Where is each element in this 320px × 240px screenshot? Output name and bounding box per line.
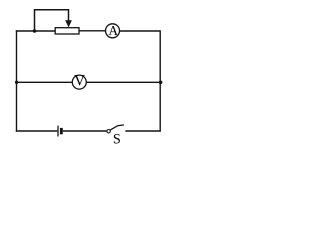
rheostat R (resistor box) xyxy=(55,28,79,34)
node junction dot middle-left xyxy=(15,81,18,84)
wire middle-right segment xyxy=(86,81,160,83)
wire bottom-left segment xyxy=(16,130,58,132)
switch S blade xyxy=(110,125,124,130)
battery cell: short thick plate xyxy=(60,128,63,134)
wire top-left segment xyxy=(16,30,55,32)
node junction dot middle-right xyxy=(159,81,163,85)
switch S pivot circle xyxy=(107,130,110,133)
ammeter A xyxy=(106,24,120,38)
wire top-right segment xyxy=(120,30,161,32)
wiper loop wire (up, across, down) xyxy=(35,10,69,31)
battery cell: long thin plate xyxy=(57,126,59,137)
node junction dot at wiper tap xyxy=(33,29,37,33)
wire battery-to-switch segment xyxy=(63,130,107,132)
wire middle-left segment xyxy=(17,81,73,83)
wire bottom-right segment xyxy=(125,130,161,132)
svg-text:A: A xyxy=(108,23,118,38)
svg-text:V: V xyxy=(74,73,85,90)
svg-text:S: S xyxy=(113,132,121,148)
wiper arrow head xyxy=(65,20,72,27)
wire rheostat right lead xyxy=(79,30,106,32)
voltmeter V xyxy=(72,75,86,89)
wire right vertical xyxy=(159,30,161,131)
wire left vertical xyxy=(16,30,18,131)
